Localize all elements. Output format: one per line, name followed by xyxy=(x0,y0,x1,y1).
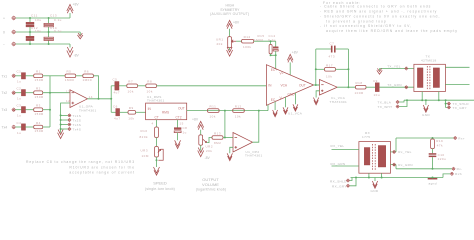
feedback wire xyxy=(50,75,65,77)
wire row2 xyxy=(16,32,81,35)
svg-text:Tx1S: Tx1S xyxy=(73,114,82,118)
svg-text:TX_BLA: TX_BLA xyxy=(378,100,392,104)
+ input gnd xyxy=(313,91,319,105)
svg-text:150R: 150R xyxy=(35,129,45,133)
pad TX_GRN xyxy=(387,83,408,89)
svg-text:820k: 820k xyxy=(140,135,149,139)
wire xyxy=(366,86,375,88)
terminal Rx+ xyxy=(454,136,465,140)
svg-text:10u: 10u xyxy=(35,18,42,22)
capacitor C10 xyxy=(429,149,447,169)
resistor R13 xyxy=(212,132,223,146)
svg-text:C11: C11 xyxy=(31,13,38,17)
svg-text:RX_GRY: RX_GRY xyxy=(332,185,347,189)
svg-text:1u: 1u xyxy=(17,80,21,84)
pad TX_BLA xyxy=(378,100,405,104)
pad Rx_GRN xyxy=(391,163,413,169)
wire xyxy=(120,111,128,113)
svg-text:10k: 10k xyxy=(235,114,241,118)
svg-text:C6: C6 xyxy=(113,104,118,108)
resistor R11 xyxy=(208,105,220,119)
svg-text:CT2: CT2 xyxy=(176,116,182,120)
svg-text:42TM018: 42TM018 xyxy=(421,59,437,63)
svg-text:0.1u: 0.1u xyxy=(54,18,62,22)
wire xyxy=(16,92,22,94)
svg-text:+: + xyxy=(3,17,5,21)
pad Tx4 xyxy=(2,125,16,129)
resistor R14 xyxy=(242,35,254,49)
svg-text:0.1u: 0.1u xyxy=(54,29,62,33)
svg-text:TX_GRY: TX_GRY xyxy=(453,106,467,110)
capacitor C6 xyxy=(113,104,121,120)
svg-text:THAT4301: THAT4301 xyxy=(79,109,97,113)
svg-text:10k: 10k xyxy=(210,114,216,118)
svg-text:UR3: UR3 xyxy=(141,148,149,152)
wire wiper to R13 xyxy=(207,138,212,143)
svg-text:GND: GND xyxy=(288,93,296,97)
svg-text:100R: 100R xyxy=(355,91,365,95)
svg-text:THAT4301: THAT4301 xyxy=(147,99,165,103)
svg-text:1775: 1775 xyxy=(362,135,370,139)
capacitor C5 xyxy=(113,78,121,95)
svg-text:R2: R2 xyxy=(36,87,41,91)
capacitor C1 xyxy=(17,70,26,84)
svg-text:10u: 10u xyxy=(35,29,42,33)
capacitor C7 xyxy=(316,41,349,58)
node Tx1S xyxy=(60,114,82,118)
wire row1 xyxy=(16,17,70,19)
ground arrow TX_YEL end xyxy=(377,68,382,74)
svg-text:- RED and GRN are signal + and: - RED and GRN are signal + and -, respec… xyxy=(320,10,437,14)
svg-text:Tx2S: Tx2S xyxy=(73,118,82,122)
capacitor C9 xyxy=(373,79,380,97)
resistor R1 xyxy=(34,70,44,82)
svg-text:0.1u: 0.1u xyxy=(268,38,276,42)
svg-text:acquire them like RED/GRN and: acquire them like RED/GRN and leave the … xyxy=(326,29,458,33)
svg-text:C2: C2 xyxy=(17,87,22,91)
shield column wire xyxy=(60,115,62,129)
resistor R18 xyxy=(355,81,367,95)
svg-text:10k: 10k xyxy=(128,117,134,121)
resistor R9 xyxy=(128,106,136,120)
wire xyxy=(43,126,50,128)
capacitor C11 xyxy=(26,13,42,32)
pad Tx2 xyxy=(2,91,16,95)
wire xyxy=(76,75,83,77)
svg-text:1M00: 1M00 xyxy=(65,78,75,82)
svg-text:+8V: +8V xyxy=(233,21,240,25)
wire xyxy=(119,85,127,87)
svg-text:RX_GRN: RX_GRN xyxy=(331,162,346,166)
svg-text:R14: R14 xyxy=(244,35,251,39)
wire into RMS xyxy=(136,111,146,113)
svg-text:RxS: RxS xyxy=(455,172,462,176)
resistor R6 xyxy=(83,70,94,82)
IC U1_RMS (RMS detector block) xyxy=(146,95,187,126)
svg-text:R12: R12 xyxy=(235,105,242,109)
+8V arrow (UR2) xyxy=(192,117,204,135)
svg-text:Rx-: Rx- xyxy=(457,167,463,171)
wire wiper to R14 xyxy=(236,40,242,42)
svg-text:VOLUME: VOLUME xyxy=(202,182,219,187)
resistor R8 xyxy=(146,80,157,94)
svg-text:(logarithmic knob): (logarithmic knob) xyxy=(196,188,227,192)
svg-text:47k: 47k xyxy=(437,144,443,148)
ground arrow TX center xyxy=(422,99,430,117)
svg-text:Tx4S: Tx4S xyxy=(73,127,82,131)
trimmer UR3 xyxy=(141,138,164,161)
capacitor C14b xyxy=(44,26,62,44)
svg-text:10k: 10k xyxy=(326,75,332,79)
svg-text:150R: 150R xyxy=(35,78,45,82)
svg-text:R3: R3 xyxy=(36,104,41,108)
trimmer UR2 xyxy=(199,135,213,153)
- input wire xyxy=(314,84,320,86)
node Tx2S xyxy=(60,118,82,122)
op-amp U1_VCA xyxy=(266,65,313,116)
svg-text:SPEED: SPEED xyxy=(153,181,167,186)
svg-text:V-: V- xyxy=(280,96,283,100)
wire upper branch xyxy=(111,85,115,87)
ground bar agnd xyxy=(428,177,438,186)
TX bottom rail xyxy=(404,99,474,101)
svg-text:C7: C7 xyxy=(330,41,335,45)
TX bottom pins xyxy=(421,92,423,101)
output wire xyxy=(337,86,355,88)
capacitor C12 xyxy=(26,26,42,44)
op-amp U1_OP2 xyxy=(233,133,263,158)
node Tx4S xyxy=(60,127,82,131)
svg-text:U1_VCA: U1_VCA xyxy=(288,111,303,115)
pad - (minus supply input) xyxy=(3,42,16,47)
node bus vertical xyxy=(110,86,112,113)
ground arrow row2 (diagonal) xyxy=(78,33,83,39)
svg-text:−: − xyxy=(3,43,5,47)
svg-text:Rx_YEL: Rx_YEL xyxy=(398,150,411,154)
pad RX_SHLD xyxy=(330,178,352,184)
-8V supply arrow xyxy=(67,44,80,58)
svg-text:1u: 1u xyxy=(17,114,21,118)
svg-text:+8V: +8V xyxy=(292,50,299,54)
VCA bottom pin gnd 2 xyxy=(283,97,288,114)
title text xyxy=(210,4,249,16)
feedback left vertical xyxy=(315,49,317,85)
svg-text:-8V: -8V xyxy=(205,156,211,160)
svg-text:Tx3S: Tx3S xyxy=(73,123,82,127)
svg-text:OUT: OUT xyxy=(178,106,185,110)
+8V arrow (UR1) xyxy=(227,20,240,36)
svg-text:20k: 20k xyxy=(206,149,212,153)
svg-text:R18: R18 xyxy=(356,81,363,85)
svg-text:R19: R19 xyxy=(436,139,443,143)
svg-text:1u: 1u xyxy=(17,97,21,101)
svg-text:OUT: OUT xyxy=(299,83,306,87)
svg-text:RMS: RMS xyxy=(162,110,169,114)
svg-text:4u7: 4u7 xyxy=(114,117,121,121)
wire RX left pin 1 xyxy=(332,149,359,151)
VCA bottom pin EC- wire xyxy=(267,105,269,111)
wire up to Rx+ line xyxy=(395,138,397,152)
ground arrow RX xyxy=(371,178,379,193)
pad TX_SHLD xyxy=(445,99,470,106)
pad TX_WHT xyxy=(378,99,409,109)
wire RX left pin 2 xyxy=(332,165,359,167)
svg-text:CT: CT xyxy=(155,116,159,120)
terminal RxS xyxy=(443,172,462,177)
wire xyxy=(26,92,34,94)
svg-text:GND: GND xyxy=(371,189,379,193)
svg-text:Rx_GRN: Rx_GRN xyxy=(398,163,412,167)
wire RMS out xyxy=(187,110,268,112)
svg-text:R9: R9 xyxy=(129,106,134,110)
wire node below xyxy=(271,54,276,56)
svg-text:10M: 10M xyxy=(142,154,149,158)
svg-text:1M00: 1M00 xyxy=(254,38,264,42)
svg-text:15: 15 xyxy=(180,122,184,126)
svg-text:10u: 10u xyxy=(374,93,381,97)
svg-text:14: 14 xyxy=(89,95,93,99)
svg-text:8M2: 8M2 xyxy=(214,141,221,145)
wire xyxy=(43,75,50,77)
svg-text:THAT4301: THAT4301 xyxy=(330,100,348,104)
svg-text:C8: C8 xyxy=(183,126,188,130)
wire xyxy=(26,109,34,111)
svg-text:R7: R7 xyxy=(128,80,133,84)
+ input gnd xyxy=(227,147,233,160)
svg-text:TX_WHT: TX_WHT xyxy=(378,105,393,109)
svg-text:220u: 220u xyxy=(438,157,447,161)
+8V arrow at VCA xyxy=(287,50,298,75)
output wire xyxy=(88,98,112,100)
svg-text:Replace C8 to change the range: Replace C8 to change the range, not R10/… xyxy=(26,160,135,164)
pad Tx3 xyxy=(2,108,16,112)
TX right wires xyxy=(445,66,469,68)
svg-text:Rx+: Rx+ xyxy=(458,136,465,140)
svg-text:13: 13 xyxy=(66,89,70,93)
wire TX_YEL net xyxy=(380,68,414,70)
-8V arrow below UR1 xyxy=(227,47,233,56)
wire to opamp (summing) xyxy=(43,92,70,94)
svg-text:(AUXILIARY OUTPUT): (AUXILIARY OUTPUT) xyxy=(210,12,249,16)
wire TX_GRN net xyxy=(379,86,414,88)
svg-text:C1: C1 xyxy=(17,70,22,74)
+ input wire to shield bus xyxy=(61,103,70,115)
svg-text:C13: C13 xyxy=(50,13,57,17)
wire xyxy=(43,109,50,111)
capacitor C13 xyxy=(44,13,62,32)
wire lower branch xyxy=(111,111,116,113)
wire xyxy=(138,85,146,87)
svg-text:150R: 150R xyxy=(35,112,45,116)
resistor R3 xyxy=(34,104,44,116)
wire to node xyxy=(254,40,276,42)
op-amp U1_OPA xyxy=(66,89,97,112)
wire to - input xyxy=(223,137,233,139)
resistor R19 xyxy=(431,138,444,149)
svg-text:4u7: 4u7 xyxy=(114,91,121,95)
svg-text:R10: R10 xyxy=(141,129,148,133)
svg-text:10k: 10k xyxy=(128,90,134,94)
resistor R4 xyxy=(34,121,44,133)
RX bottom pins xyxy=(368,173,370,177)
VCA bottom pin gnd 3 xyxy=(293,93,298,111)
svg-text:+8V: +8V xyxy=(192,117,199,121)
wire into VCA top pin xyxy=(275,55,277,69)
node Tx3S xyxy=(60,123,82,127)
wire xyxy=(26,126,34,128)
svg-text:20k: 20k xyxy=(217,42,223,46)
svg-text:Tx1: Tx1 xyxy=(2,74,8,78)
wire xyxy=(16,109,22,111)
svg-text:4: 4 xyxy=(152,122,154,126)
resistor R5 xyxy=(65,70,76,82)
svg-text:R13: R13 xyxy=(214,132,221,136)
RX shield rail xyxy=(351,177,444,179)
svg-text:(single-turn knob): (single-turn knob) xyxy=(145,187,175,191)
svg-text:0: 0 xyxy=(3,31,5,35)
svg-text:Tx2: Tx2 xyxy=(2,91,8,95)
svg-text:- Shield/GRY connects to 0V on: - Shield/GRY connects to 0V on exactly o… xyxy=(320,14,440,18)
resistor R10 (below RMS) xyxy=(140,120,159,139)
svg-text:THAT4301: THAT4301 xyxy=(245,154,263,158)
capacitor C14 xyxy=(268,34,278,55)
svg-text:TX_GRN: TX_GRN xyxy=(387,83,402,87)
trimmer UR1 xyxy=(216,37,236,48)
wire xyxy=(16,126,22,128)
pad TX_YEL xyxy=(387,64,408,70)
svg-text:EC+: EC+ xyxy=(271,68,277,72)
svg-text:+8V: +8V xyxy=(73,3,80,7)
wire xyxy=(16,75,22,77)
svg-text:V+: V+ xyxy=(280,71,284,75)
resistor R17 xyxy=(315,63,350,78)
svg-text:R17: R17 xyxy=(326,63,333,67)
svg-text:C3: C3 xyxy=(17,104,22,108)
feedback right vertical xyxy=(347,49,349,87)
output wire up xyxy=(253,111,259,143)
svg-text:C4: C4 xyxy=(17,121,22,125)
svg-text:R11: R11 xyxy=(210,105,217,109)
svg-text:TX_YEL: TX_YEL xyxy=(387,64,401,68)
svg-text:R5: R5 xyxy=(67,70,72,74)
svg-text:C9: C9 xyxy=(373,79,378,83)
junction dots power xyxy=(29,17,31,19)
svg-text:- Cable Shield connects to GRY: - Cable Shield connects to GRY on both e… xyxy=(320,5,431,9)
rail 0V mid xyxy=(396,168,452,170)
VCA bottom pin gnd 1 xyxy=(273,102,278,117)
op-amp CL_VCA xyxy=(320,80,348,105)
svg-text:to prevent a ground loop: to prevent a ground loop xyxy=(326,19,387,23)
resistor R12 xyxy=(233,105,245,119)
svg-text:473: 473 xyxy=(329,54,336,58)
resistor R2 xyxy=(34,87,44,99)
wire long to VCA input xyxy=(157,85,267,87)
svg-text:R6: R6 xyxy=(84,70,89,74)
+8V supply arrow xyxy=(67,3,80,19)
-8V arrow below UR2 xyxy=(198,145,211,160)
wire feedback to output xyxy=(93,76,98,99)
svg-text:Tx3: Tx3 xyxy=(2,108,8,112)
wire row3 xyxy=(16,43,70,45)
pad 0 (zero supply input) xyxy=(3,30,16,35)
resistor R7 xyxy=(127,80,138,94)
resistor R15 xyxy=(254,34,272,55)
svg-text:R4: R4 xyxy=(36,121,41,125)
svg-text:100k: 100k xyxy=(243,45,252,49)
VCA output wire xyxy=(314,84,320,86)
pad + (plus supply input) xyxy=(3,16,16,21)
svg-text:1u: 1u xyxy=(183,130,187,134)
svg-text:R10/UR3 are chosen for the: R10/UR3 are chosen for the xyxy=(69,165,135,169)
capacitor C4 xyxy=(17,121,26,135)
svg-text:C5: C5 xyxy=(113,78,118,82)
wire / gnd below UR3 xyxy=(154,157,160,175)
transformer TX xyxy=(414,54,446,91)
pad Rx_YEL xyxy=(391,150,412,154)
ground arrow shield column xyxy=(58,129,64,139)
wire Rx+ xyxy=(396,137,454,139)
svg-text:R1: R1 xyxy=(36,70,41,74)
svg-text:agnd: agnd xyxy=(429,182,437,186)
svg-text:Tx4: Tx4 xyxy=(2,126,8,130)
summing bus xyxy=(49,76,51,127)
svg-text:RX_SHLD: RX_SHLD xyxy=(330,179,347,183)
svg-text:1u: 1u xyxy=(17,131,21,135)
pad Tx1 xyxy=(2,74,16,78)
svg-text:150R: 150R xyxy=(35,95,45,99)
svg-text:-8V: -8V xyxy=(74,54,80,58)
svg-text:VCA: VCA xyxy=(281,84,288,88)
svg-text:R8: R8 xyxy=(147,80,152,84)
terminal Rx- xyxy=(452,167,463,171)
svg-text:acceptable range of current: acceptable range of current xyxy=(69,171,135,175)
svg-text:1M00: 1M00 xyxy=(83,78,93,82)
pad TX_GRY xyxy=(446,104,467,110)
transformer RX xyxy=(359,131,391,173)
svg-text:10k: 10k xyxy=(147,90,153,94)
capacitor C3 xyxy=(17,104,26,118)
capacitor C8 xyxy=(174,120,187,149)
pad RX_GRY xyxy=(332,177,357,189)
wire xyxy=(26,75,34,77)
svg-text:RX_YEL: RX_YEL xyxy=(331,144,345,148)
wire from R11/R12 node down xyxy=(224,111,226,138)
svg-text:- If not connecting Shield/GRY: - If not connecting Shield/GRY to 0V, xyxy=(320,24,412,28)
capacitor C2 xyxy=(17,87,26,101)
svg-text:GND: GND xyxy=(422,113,430,117)
